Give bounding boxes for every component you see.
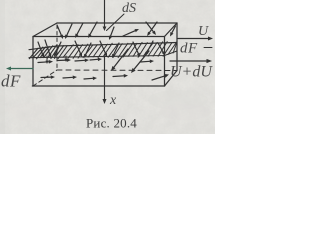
flow arrow lower zone 4 [90, 58, 102, 62]
svg-text:dF: dF [180, 41, 198, 57]
x-axis upper segment with arrowhead onto plane [103, 0, 107, 31]
box back right edge [176, 23, 178, 71]
plane-crossing arrow 9 [145, 41, 153, 56]
molecule arrow upper zone 4 [88, 22, 97, 38]
molecule arrow upper zone 6 [146, 22, 156, 35]
box front bottom edge [32, 85, 164, 87]
box front right edge [164, 37, 166, 87]
svg-text:dS: dS [122, 1, 136, 16]
molecule arrow upper zone 3 [75, 23, 83, 38]
dS pointer line [107, 14, 125, 31]
scan smudge bottom right [148, 90, 208, 110]
plane-crossing arrow 2 [45, 40, 51, 58]
paper background [0, 0, 215, 134]
molecule arrow upper zone up-right [123, 29, 139, 36]
scan smudge bottom left [8, 102, 68, 122]
short down arrow below plane 2 [65, 56, 68, 62]
velocity arrow U (upper layer) [178, 37, 213, 41]
molecule arrow upper zone 1 [57, 25, 63, 39]
flow arrow lower zone 7 [84, 77, 97, 81]
box front left edge [32, 37, 34, 87]
svg-text:x: x [109, 93, 117, 108]
box top-right slant edge [165, 23, 178, 37]
molecule arrow upper zone 7 [147, 22, 157, 36]
long arrow from plane down-left 2 [131, 51, 149, 73]
svg-text:U+dU: U+dU [170, 64, 213, 81]
box back top edge [57, 22, 177, 24]
box front top edge [33, 36, 165, 38]
hidden back bottom edge (dashed) [57, 69, 177, 72]
flow arrow lower zone 2 [57, 58, 71, 62]
paper speckle texture [0, 0, 215, 134]
scan smudge top left [1, 8, 15, 48]
svg-text:dF: dF [1, 72, 21, 91]
svg-text:U: U [198, 24, 209, 39]
molecule arrow upper zone 2 [65, 24, 72, 39]
long arrow from plane down-left 1 [111, 49, 128, 71]
plane-crossing arrow 10 [158, 43, 165, 56]
flow arrow lower zone 9 [140, 60, 154, 64]
flow arrow lower zone 8 [113, 74, 128, 78]
svg-text:Рис. 20.4: Рис. 20.4 [86, 116, 137, 131]
plane-crossing arrow 5 [84, 43, 91, 58]
plane-crossing arrow 7 [112, 43, 119, 58]
scan smudge left edge [0, 0, 5, 134]
box top-left slant edge [33, 23, 57, 37]
flow arrow lower zone 1 [38, 60, 53, 64]
velocity arrow U+dU (lower layer) [170, 59, 212, 63]
plane-crossing arrow 6 [100, 41, 107, 57]
x-axis lower segment with arrowhead [103, 56, 107, 104]
flow arrow lower zone 5 [41, 75, 55, 79]
flow arrow lower zone 6 [63, 76, 77, 80]
hatched plane (layer boundary strip) [29, 42, 177, 59]
force arrow dF pointing left (on lower layer) [6, 67, 33, 71]
hidden back-left edge (dashed) [56, 25, 58, 70]
small dash after dF label [204, 47, 212, 49]
flow arrow lower zone 3 [75, 59, 89, 63]
paper grain texture [0, 0, 215, 134]
molecule arrow upper zone 5 [109, 27, 114, 40]
plane-crossing arrow 1 [38, 42, 44, 58]
plane-crossing arrow 8 [133, 42, 140, 57]
molecule arrow upper zone 8 [170, 26, 176, 37]
box bottom-right slant edge [165, 71, 178, 87]
plane-crossing arrow 3 [54, 42, 61, 57]
plane-crossing arrow 4 [75, 41, 82, 57]
flow arrow pointing toward U+dU label [152, 74, 169, 80]
short down arrow below plane 1 [46, 56, 49, 64]
hidden bottom-left slant edge (dashed) [33, 70, 57, 86]
